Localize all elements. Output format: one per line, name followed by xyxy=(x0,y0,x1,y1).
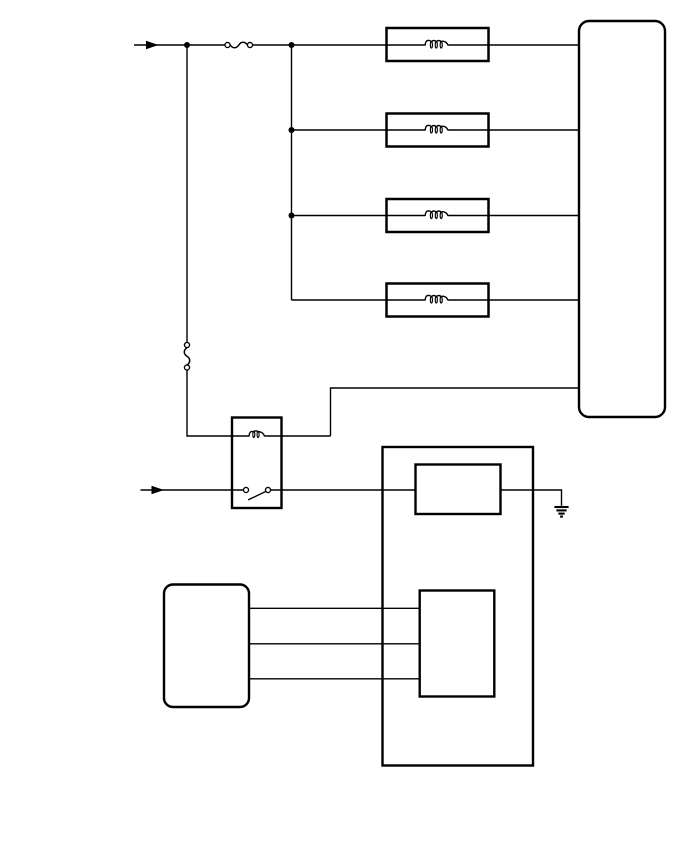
wire through relay coil xyxy=(232,435,249,437)
node J3 xyxy=(289,127,295,133)
fuse F1 left terminal circle xyxy=(225,42,230,47)
wire branch bus vertical xyxy=(291,45,293,300)
inductor L1 coil xyxy=(425,40,448,45)
processor box P1 xyxy=(420,591,495,697)
wire switch to module xyxy=(271,489,416,491)
module box M1 xyxy=(416,465,501,515)
switch blade xyxy=(248,491,266,500)
connector box (rounded) xyxy=(164,585,249,708)
wire connector line 1 xyxy=(249,607,420,609)
filter box L3 xyxy=(387,199,489,232)
fuse F1 right terminal circle xyxy=(247,42,252,47)
node J4 xyxy=(289,213,295,219)
fuse F2 wavy element xyxy=(184,348,189,365)
relay box K1 xyxy=(232,418,282,509)
filter box L1 xyxy=(387,28,489,61)
filter box L2 xyxy=(387,114,489,147)
relay coil K1 xyxy=(249,431,264,437)
node J1 xyxy=(184,42,190,48)
wire module to ground xyxy=(501,490,562,506)
inductor L4 coil xyxy=(425,295,448,300)
wire row 2 xyxy=(292,129,426,131)
wire connector line 2 xyxy=(249,643,420,645)
wire left drop upper xyxy=(186,45,188,342)
inductor L3 coil xyxy=(425,211,448,216)
fuse F1 wavy element xyxy=(230,42,247,47)
fuse F2 top terminal circle xyxy=(184,342,189,347)
load box U1 (rounded) xyxy=(579,21,665,417)
switch contact right circle xyxy=(265,487,270,492)
wire control feeder left xyxy=(141,489,244,491)
wire row 3 xyxy=(292,215,426,217)
input arrow A1 (top feeder) xyxy=(146,41,159,49)
fuse F2 bottom terminal circle xyxy=(184,365,189,370)
wire top feeder to load box xyxy=(253,44,426,46)
controller box xyxy=(383,447,534,766)
input arrow A2 (control feeder) xyxy=(152,486,165,494)
switch contact left circle xyxy=(243,487,248,492)
wire top feeder left segment xyxy=(134,44,225,46)
filter box L4 xyxy=(387,284,489,317)
wire connector line 3 xyxy=(249,678,420,680)
wire coil to load box xyxy=(331,388,580,436)
node J2 xyxy=(289,42,295,48)
wire left drop lower xyxy=(187,370,232,436)
wire row 4 xyxy=(292,299,426,301)
ground GND xyxy=(554,507,568,517)
inductor L2 coil xyxy=(425,125,448,130)
